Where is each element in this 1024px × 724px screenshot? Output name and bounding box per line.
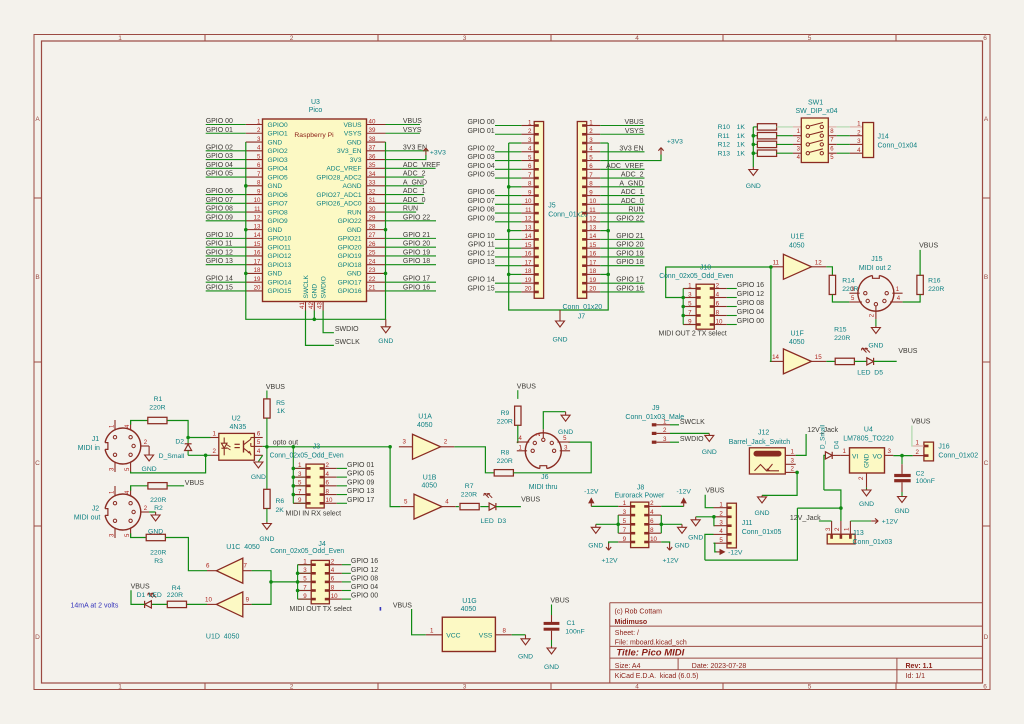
svg-text:Size: A4: Size: A4 xyxy=(615,663,641,670)
svg-text:20: 20 xyxy=(589,286,596,293)
svg-text:J8: J8 xyxy=(637,484,645,491)
svg-text:VBUS: VBUS xyxy=(131,584,150,591)
svg-text:19: 19 xyxy=(525,277,532,284)
svg-text:GPIO 13: GPIO 13 xyxy=(206,258,233,265)
svg-text:AGND: AGND xyxy=(342,183,361,190)
svg-text:B: B xyxy=(984,274,988,281)
svg-text:220R: 220R xyxy=(497,458,513,465)
svg-text:R10: R10 xyxy=(718,124,731,131)
svg-text:GPIO 04: GPIO 04 xyxy=(467,163,494,170)
svg-text:Conn_01x20: Conn_01x20 xyxy=(563,304,603,311)
svg-text:1: 1 xyxy=(842,448,846,455)
svg-text:GPIO 20: GPIO 20 xyxy=(616,242,643,249)
svg-text:20: 20 xyxy=(525,286,532,293)
svg-text:4050: 4050 xyxy=(789,339,805,346)
svg-text:GPIO 12: GPIO 12 xyxy=(737,291,764,298)
svg-text:GPIO 08: GPIO 08 xyxy=(467,207,494,214)
svg-text:Id: 1/1: Id: 1/1 xyxy=(906,673,926,680)
svg-text:12: 12 xyxy=(589,216,596,223)
svg-text:Conn_01x03_Male: Conn_01x03_Male xyxy=(625,414,684,421)
svg-text:9: 9 xyxy=(589,189,593,196)
svg-text:2: 2 xyxy=(663,427,667,434)
svg-text:29: 29 xyxy=(369,215,376,222)
svg-text:D: D xyxy=(984,634,989,641)
svg-text:8: 8 xyxy=(716,309,720,316)
svg-text:GPIO 18: GPIO 18 xyxy=(403,258,430,265)
svg-text:LM7805_TO220: LM7805_TO220 xyxy=(843,435,894,442)
svg-text:5: 5 xyxy=(298,480,302,487)
svg-text:41: 41 xyxy=(299,302,306,309)
svg-text:6: 6 xyxy=(983,35,987,42)
svg-text:R2: R2 xyxy=(154,505,163,512)
svg-text:GPIO 15: GPIO 15 xyxy=(467,285,494,292)
svg-text:8: 8 xyxy=(503,628,507,635)
svg-text:GPIO 12: GPIO 12 xyxy=(467,250,494,257)
svg-text:SWCLK: SWCLK xyxy=(335,339,360,346)
svg-text:GPIO 22: GPIO 22 xyxy=(616,215,643,222)
svg-text:D4: D4 xyxy=(834,440,841,449)
svg-text:Eurorack Power: Eurorack Power xyxy=(615,493,665,500)
svg-text:2: 2 xyxy=(213,448,217,455)
svg-text:7: 7 xyxy=(244,563,248,570)
svg-text:6: 6 xyxy=(716,300,720,307)
svg-text:9: 9 xyxy=(257,188,261,195)
svg-text:GPIO 17: GPIO 17 xyxy=(403,276,430,283)
svg-text:6: 6 xyxy=(257,430,261,437)
svg-text:A: A xyxy=(984,116,989,123)
svg-text:GND: GND xyxy=(544,664,559,671)
svg-text:Conn_02x05_Odd_Even: Conn_02x05_Odd_Even xyxy=(270,548,344,555)
svg-text:GND: GND xyxy=(674,542,689,549)
svg-text:3: 3 xyxy=(463,35,467,42)
svg-text:SWCLK: SWCLK xyxy=(303,274,310,298)
svg-text:9: 9 xyxy=(246,596,250,603)
svg-text:220R: 220R xyxy=(928,286,944,293)
svg-text:GPIO 03: GPIO 03 xyxy=(206,153,233,160)
svg-text:15: 15 xyxy=(589,242,596,249)
svg-text:11: 11 xyxy=(589,207,596,214)
svg-text:3V3_EN: 3V3_EN xyxy=(337,148,362,155)
svg-text:J12: J12 xyxy=(758,430,769,437)
svg-text:39: 39 xyxy=(369,127,376,134)
svg-text:2: 2 xyxy=(650,500,654,507)
svg-text:VBUS: VBUS xyxy=(266,384,285,391)
svg-text:6: 6 xyxy=(589,163,593,170)
svg-text:GPIO 18: GPIO 18 xyxy=(616,259,643,266)
svg-text:GPIO 08: GPIO 08 xyxy=(737,300,764,307)
svg-text:J6: J6 xyxy=(541,474,549,481)
svg-text:U1E: U1E xyxy=(791,234,805,241)
svg-text:2: 2 xyxy=(326,462,330,469)
svg-text:4: 4 xyxy=(257,448,261,455)
svg-text:GPIO 01: GPIO 01 xyxy=(206,127,233,134)
svg-text:28: 28 xyxy=(369,223,376,230)
svg-text:GPIO22: GPIO22 xyxy=(338,218,362,225)
svg-text:15: 15 xyxy=(525,242,532,249)
svg-text:23: 23 xyxy=(369,267,376,274)
svg-text:15: 15 xyxy=(254,241,261,248)
svg-text:GND: GND xyxy=(347,271,362,278)
svg-text:U3: U3 xyxy=(311,99,320,106)
svg-text:Raspberry Pi: Raspberry Pi xyxy=(294,132,334,139)
svg-text:1: 1 xyxy=(916,440,920,447)
svg-text:GPIO2: GPIO2 xyxy=(268,148,288,155)
svg-text:220R: 220R xyxy=(167,592,183,599)
svg-text:15: 15 xyxy=(815,354,822,361)
svg-text:Conn_01x20: Conn_01x20 xyxy=(548,212,588,219)
svg-text:4: 4 xyxy=(719,528,723,535)
svg-text:4050: 4050 xyxy=(461,606,477,613)
svg-text:KiCad E.D.A. kicad (6.0.5): KiCad E.D.A. kicad (6.0.5) xyxy=(615,673,699,680)
svg-text:2: 2 xyxy=(290,35,294,42)
svg-text:1: 1 xyxy=(719,502,723,509)
svg-text:18: 18 xyxy=(589,268,596,275)
svg-text:GND: GND xyxy=(347,227,362,234)
svg-text:GPIO7: GPIO7 xyxy=(268,201,288,208)
svg-text:GND: GND xyxy=(754,510,769,517)
svg-text:GND: GND xyxy=(268,183,283,190)
svg-text:U1F: U1F xyxy=(791,330,804,337)
svg-text:LED D3: LED D3 xyxy=(481,518,507,525)
svg-text:3: 3 xyxy=(403,439,407,446)
svg-text:7: 7 xyxy=(528,172,532,179)
svg-text:4050: 4050 xyxy=(422,482,438,489)
svg-text:5: 5 xyxy=(688,300,692,307)
svg-text:1: 1 xyxy=(589,119,593,126)
svg-text:R5: R5 xyxy=(276,400,285,407)
svg-text:+3V3: +3V3 xyxy=(430,150,446,157)
svg-text:220R: 220R xyxy=(497,418,513,425)
svg-text:+3V3: +3V3 xyxy=(667,139,683,146)
svg-text:12: 12 xyxy=(254,215,261,222)
svg-text:VBUS: VBUS xyxy=(521,496,540,503)
svg-text:31: 31 xyxy=(369,197,376,204)
svg-text:Sheet: /: Sheet: / xyxy=(615,630,639,637)
svg-text:6: 6 xyxy=(206,563,210,570)
svg-text:GND: GND xyxy=(142,466,157,473)
svg-text:GPIO 04: GPIO 04 xyxy=(737,309,764,316)
svg-text:10: 10 xyxy=(650,536,657,543)
svg-text:GPIO11: GPIO11 xyxy=(268,244,292,251)
svg-text:ADC_VREF: ADC_VREF xyxy=(606,163,643,170)
svg-text:16: 16 xyxy=(525,251,532,258)
svg-text:R8: R8 xyxy=(501,450,510,457)
svg-text:5: 5 xyxy=(719,537,723,544)
svg-text:D_Small: D_Small xyxy=(159,453,185,460)
svg-text:1: 1 xyxy=(303,559,307,566)
svg-text:GND: GND xyxy=(552,337,567,344)
svg-text:VI: VI xyxy=(852,453,858,460)
svg-text:SWCLK: SWCLK xyxy=(680,419,705,426)
svg-text:30: 30 xyxy=(369,206,376,213)
svg-text:2: 2 xyxy=(589,128,593,135)
svg-text:GND: GND xyxy=(859,501,874,508)
svg-text:GND: GND xyxy=(894,508,909,515)
svg-text:5: 5 xyxy=(404,499,408,506)
svg-text:13: 13 xyxy=(525,224,532,231)
svg-text:2: 2 xyxy=(444,439,448,446)
svg-text:R16: R16 xyxy=(928,277,941,284)
svg-text:GPIO 16: GPIO 16 xyxy=(737,282,764,289)
svg-text:18: 18 xyxy=(525,268,532,275)
svg-text:GPIO6: GPIO6 xyxy=(268,192,288,199)
svg-text:J15: J15 xyxy=(871,256,882,263)
svg-text:GPIO18: GPIO18 xyxy=(338,262,362,269)
svg-text:1K: 1K xyxy=(737,124,746,131)
svg-text:+12V: +12V xyxy=(662,557,679,564)
svg-text:GPIO 01: GPIO 01 xyxy=(347,462,374,469)
svg-text:1: 1 xyxy=(623,500,627,507)
svg-text:GPIO 22: GPIO 22 xyxy=(403,214,430,221)
svg-text:GPIO 00: GPIO 00 xyxy=(467,119,494,126)
svg-text:GPIO 00: GPIO 00 xyxy=(351,593,378,600)
svg-text:8: 8 xyxy=(257,180,261,187)
svg-text:6: 6 xyxy=(650,518,654,525)
svg-text:R14: R14 xyxy=(842,277,855,284)
svg-text:17: 17 xyxy=(254,258,261,265)
svg-text:4: 4 xyxy=(528,146,532,153)
svg-text:5: 5 xyxy=(808,35,812,42)
svg-text:7: 7 xyxy=(303,584,307,591)
svg-text:ADC_1: ADC_1 xyxy=(621,189,644,196)
svg-text:R7: R7 xyxy=(465,483,474,490)
svg-text:VBUS: VBUS xyxy=(898,348,917,355)
svg-text:GPIO4: GPIO4 xyxy=(268,166,288,173)
svg-text:C1: C1 xyxy=(567,620,576,627)
svg-text:LED: LED xyxy=(149,592,162,599)
svg-text:8: 8 xyxy=(326,488,330,495)
svg-text:VBUS: VBUS xyxy=(344,122,363,129)
svg-text:10: 10 xyxy=(331,593,338,600)
svg-text:J14: J14 xyxy=(878,134,889,141)
svg-text:J3: J3 xyxy=(313,443,321,450)
svg-text:+12V: +12V xyxy=(601,557,618,564)
svg-text:GPIO 21: GPIO 21 xyxy=(616,233,643,240)
svg-text:16: 16 xyxy=(254,250,261,257)
svg-text:D: D xyxy=(35,634,40,641)
svg-text:-12V: -12V xyxy=(677,488,692,495)
svg-text:17: 17 xyxy=(589,259,596,266)
svg-text:37: 37 xyxy=(369,145,376,152)
svg-text:7: 7 xyxy=(257,171,261,178)
svg-text:GND: GND xyxy=(268,139,283,146)
svg-text:GPIO 17: GPIO 17 xyxy=(616,277,643,284)
svg-text:GPIO12: GPIO12 xyxy=(268,253,292,260)
svg-text:GPIO 02: GPIO 02 xyxy=(467,145,494,152)
svg-text:6: 6 xyxy=(257,162,261,169)
svg-text:GPIO 10: GPIO 10 xyxy=(206,232,233,239)
svg-text:GPIO10: GPIO10 xyxy=(268,236,292,243)
svg-text:10: 10 xyxy=(525,198,532,205)
svg-text:D1: D1 xyxy=(137,592,146,599)
svg-text:U1B: U1B xyxy=(423,474,437,481)
svg-text:GPIO 21: GPIO 21 xyxy=(403,232,430,239)
svg-text:GPIO 16: GPIO 16 xyxy=(351,558,378,565)
svg-text:25: 25 xyxy=(369,250,376,257)
svg-text:1K: 1K xyxy=(277,408,286,415)
svg-text:7: 7 xyxy=(298,488,302,495)
svg-text:C2: C2 xyxy=(916,470,925,477)
svg-text:24: 24 xyxy=(369,258,376,265)
svg-text:8: 8 xyxy=(589,181,593,188)
svg-text:14: 14 xyxy=(254,232,261,239)
svg-text:Date: 2023-07-28: Date: 2023-07-28 xyxy=(692,663,747,670)
svg-text:C: C xyxy=(984,460,989,467)
svg-text:GPIO9: GPIO9 xyxy=(268,218,288,225)
svg-text:GPIO 05: GPIO 05 xyxy=(467,172,494,179)
svg-text:VBUS: VBUS xyxy=(705,488,724,495)
svg-text:D2: D2 xyxy=(175,439,184,446)
svg-text:Conn_01x04: Conn_01x04 xyxy=(878,143,918,150)
svg-text:GPIO 14: GPIO 14 xyxy=(206,276,233,283)
svg-text:U1C 4050: U1C 4050 xyxy=(226,544,260,551)
svg-text:GPIO3: GPIO3 xyxy=(268,157,288,164)
svg-text:GPIO 12: GPIO 12 xyxy=(351,567,378,574)
svg-text:MIDI in: MIDI in xyxy=(78,445,100,452)
svg-text:4: 4 xyxy=(331,567,335,574)
svg-text:GND: GND xyxy=(518,653,533,660)
svg-text:GPIO14: GPIO14 xyxy=(268,279,292,286)
svg-text:VBUS: VBUS xyxy=(911,419,930,426)
svg-text:SWDIO: SWDIO xyxy=(320,276,327,298)
svg-text:17: 17 xyxy=(525,259,532,266)
svg-text:1K: 1K xyxy=(737,142,746,149)
svg-text:21: 21 xyxy=(369,285,376,292)
svg-text:4: 4 xyxy=(326,471,330,478)
svg-text:9: 9 xyxy=(303,593,307,600)
svg-text:4: 4 xyxy=(857,147,861,154)
svg-text:13: 13 xyxy=(589,224,596,231)
svg-text:GND: GND xyxy=(312,284,319,299)
svg-text:2: 2 xyxy=(791,465,795,472)
svg-text:GPIO 19: GPIO 19 xyxy=(403,249,430,256)
svg-text:220R: 220R xyxy=(149,405,165,412)
svg-text:14: 14 xyxy=(525,233,532,240)
svg-text:11: 11 xyxy=(773,259,780,266)
svg-text:GPIO 07: GPIO 07 xyxy=(206,197,233,204)
svg-text:5: 5 xyxy=(808,684,812,691)
svg-text:3: 3 xyxy=(663,436,667,443)
svg-text:GND: GND xyxy=(558,429,573,436)
svg-text:J9: J9 xyxy=(652,405,660,412)
svg-text:7: 7 xyxy=(688,309,692,316)
svg-text:VSYS: VSYS xyxy=(625,128,644,135)
svg-text:J4: J4 xyxy=(318,541,326,548)
svg-text:3: 3 xyxy=(463,684,467,691)
svg-text:GND: GND xyxy=(688,534,703,541)
svg-text:220R: 220R xyxy=(150,549,166,556)
svg-text:J11: J11 xyxy=(742,520,753,527)
svg-text:Title: Pico MIDI: Title: Pico MIDI xyxy=(616,648,684,659)
svg-text:3: 3 xyxy=(825,527,832,531)
svg-text:1: 1 xyxy=(213,430,217,437)
svg-text:GND: GND xyxy=(347,139,362,146)
svg-text:ADC_2: ADC_2 xyxy=(403,171,426,178)
svg-text:GPIO27_ADC1: GPIO27_ADC1 xyxy=(316,192,361,199)
svg-text:GPIO 09: GPIO 09 xyxy=(347,479,374,486)
svg-text:Barrel_Jack_Switch: Barrel_Jack_Switch xyxy=(729,439,791,446)
svg-text:1: 1 xyxy=(298,462,302,469)
svg-text:4: 4 xyxy=(716,291,720,298)
svg-text:10: 10 xyxy=(205,596,212,603)
svg-text:MIDI out 2: MIDI out 2 xyxy=(859,265,891,272)
svg-text:Conn_01x02: Conn_01x02 xyxy=(938,452,978,459)
svg-text:4N35: 4N35 xyxy=(230,424,247,431)
svg-text:A: A xyxy=(35,116,40,123)
svg-text:GPIO 12: GPIO 12 xyxy=(206,249,233,256)
svg-text:-12V: -12V xyxy=(584,488,599,495)
svg-text:1: 1 xyxy=(257,118,261,125)
svg-text:GPIO 05: GPIO 05 xyxy=(206,171,233,178)
svg-text:1: 1 xyxy=(688,282,692,289)
svg-text:GPIO 11: GPIO 11 xyxy=(468,242,495,249)
svg-text:35: 35 xyxy=(369,162,376,169)
svg-text:8: 8 xyxy=(528,181,532,188)
svg-text:GPIO20: GPIO20 xyxy=(338,244,362,251)
svg-text:1: 1 xyxy=(118,684,122,691)
svg-text:Conn_01x03: Conn_01x03 xyxy=(853,539,893,546)
svg-text:VBUS: VBUS xyxy=(919,243,938,250)
svg-text:MIDI thru: MIDI thru xyxy=(529,484,558,491)
svg-text:33: 33 xyxy=(369,180,376,187)
svg-text:U1G: U1G xyxy=(462,598,476,605)
svg-text:22: 22 xyxy=(369,276,376,283)
svg-text:LED D5: LED D5 xyxy=(857,370,883,377)
svg-text:J5: J5 xyxy=(548,203,556,210)
svg-text:GPIO 11: GPIO 11 xyxy=(206,241,233,248)
svg-text:4: 4 xyxy=(635,684,639,691)
svg-text:GPIO1: GPIO1 xyxy=(268,131,288,138)
svg-text:GPIO 04: GPIO 04 xyxy=(351,584,378,591)
svg-text:220R: 220R xyxy=(150,497,166,504)
svg-text:26: 26 xyxy=(369,241,376,248)
svg-text:5: 5 xyxy=(528,154,532,161)
svg-text:R15: R15 xyxy=(834,326,847,333)
svg-text:GPIO 03: GPIO 03 xyxy=(467,154,494,161)
svg-text:MIDI OUT 2 TX select: MIDI OUT 2 TX select xyxy=(659,330,727,337)
svg-text:3: 3 xyxy=(528,137,532,144)
svg-text:U4: U4 xyxy=(864,427,873,434)
svg-text:2: 2 xyxy=(528,128,532,135)
svg-text:14mA at 2 volts: 14mA at 2 volts xyxy=(71,602,119,609)
svg-text:D_Small: D_Small xyxy=(820,425,827,449)
svg-text:GND: GND xyxy=(268,227,283,234)
svg-text:RUN: RUN xyxy=(628,207,643,214)
svg-text:GPIO 00: GPIO 00 xyxy=(206,118,233,125)
svg-text:GND: GND xyxy=(702,449,717,456)
svg-text:GPIO 00: GPIO 00 xyxy=(737,318,764,325)
svg-text:R4: R4 xyxy=(172,585,181,592)
svg-text:R3: R3 xyxy=(154,558,163,565)
svg-text:42: 42 xyxy=(308,302,315,309)
svg-text:1: 1 xyxy=(791,448,795,455)
svg-text:32: 32 xyxy=(369,188,376,195)
svg-text:GPIO19: GPIO19 xyxy=(338,253,362,260)
svg-text:J1: J1 xyxy=(92,436,100,443)
svg-text:1K: 1K xyxy=(737,133,746,140)
svg-text:2: 2 xyxy=(858,476,865,480)
svg-text:4: 4 xyxy=(257,145,261,152)
svg-text:3: 3 xyxy=(298,471,302,478)
svg-text:U2: U2 xyxy=(232,415,241,422)
svg-text:VBUS: VBUS xyxy=(550,598,569,605)
svg-text:MIDI IN RX select: MIDI IN RX select xyxy=(286,510,342,517)
svg-text:GPIO 09: GPIO 09 xyxy=(206,214,233,221)
svg-text:7: 7 xyxy=(589,172,593,179)
svg-text:2: 2 xyxy=(290,684,294,691)
svg-text:GND: GND xyxy=(588,542,603,549)
svg-text:6: 6 xyxy=(326,480,330,487)
